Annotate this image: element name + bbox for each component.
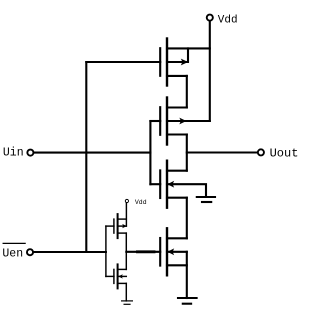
wire Uen_bar vertical to Q1 gate (85, 62, 87, 252)
Q6 drain leg (118, 268, 127, 270)
terminal Vdd (207, 15, 213, 21)
transistor Q6 mini NMOS (106, 264, 126, 288)
Q3 drain leg (167, 170, 187, 172)
Q5 body leg (118, 225, 127, 227)
mini gate rail (inverter input) (105, 226, 107, 276)
Q1 gate bar (159, 48, 161, 76)
transistor Q5 mini PMOS (106, 214, 127, 238)
svg-text:Uin: Uin (3, 146, 24, 159)
Q2 body arrow (179, 118, 186, 125)
Q6 gate wire (106, 275, 114, 277)
Q6 channel bar (117, 264, 119, 288)
wire inverter output to Q4 gate (126, 251, 160, 253)
transistor Q4 NMOS bottom (160, 228, 187, 275)
transistor Q2 PMOS (150, 98, 209, 145)
Q3 channel bar (166, 161, 168, 208)
wire Q1 gate from node Uen_bar (86, 61, 160, 63)
svg-text:Uen: Uen (2, 247, 23, 260)
svg-text:Vdd: Vdd (218, 15, 238, 27)
Q2 drain leg (167, 133, 187, 135)
transistor Q1 PMOS top (86, 39, 210, 86)
Q4 channel bar (166, 228, 168, 275)
wire Q3 gate from Uin rail (150, 183, 160, 185)
Q3 body leg to ground (167, 184, 206, 196)
Q1 source leg to Vdd rail (167, 47, 210, 49)
Q6 body leg (118, 275, 127, 277)
wire Q2 drain to Q3 drain (output node) (186, 135, 188, 171)
terminal Uout (258, 149, 264, 155)
wire Q6 source to ground G3 (125, 283, 127, 301)
Q4 source leg (167, 264, 187, 266)
Q2 gate bar (159, 107, 161, 135)
wire Q4 body/source to ground G2 (186, 252, 188, 298)
Q1 channel bar (166, 39, 168, 86)
Q2 source leg (167, 106, 187, 108)
Q1 body arrow (181, 59, 188, 66)
Q5 gate wire (106, 225, 114, 227)
Uen overline (3, 242, 25, 244)
wire Q2 gate from Uin rail (150, 120, 160, 122)
mini inverter: terminal Vdd2 (125, 199, 128, 202)
Q4 body leg (167, 251, 187, 253)
wire Q3 source to Q4 drain (186, 198, 188, 239)
Q2 body leg to Vdd rail (167, 120, 210, 122)
Q3 body arrow (167, 181, 174, 188)
wire Vdd rail (209, 21, 211, 121)
Q2 channel bar (166, 98, 168, 145)
Q5 drain leg (118, 232, 127, 234)
Q1 drain leg (167, 75, 187, 77)
Q6 gate bar (113, 269, 115, 283)
wire Uin (34, 152, 150, 154)
Q5 channel bar (117, 214, 119, 238)
wire Uout (187, 151, 257, 153)
Q1 body leg (167, 48, 188, 62)
terminal Uen (27, 249, 33, 255)
Q4 body arrow (167, 248, 174, 255)
ground G1 (Q3 bulk) (197, 197, 215, 202)
Q4 gate bar (159, 238, 161, 266)
terminal Uin (27, 150, 33, 156)
Q5 source leg (118, 218, 127, 220)
svg-text:Vdd: Vdd (135, 199, 147, 206)
wire Uin gate rail (149, 121, 151, 184)
svg-text:Uout: Uout (270, 147, 299, 161)
Q6 body arrow (118, 274, 123, 278)
Q5 gate bar (113, 219, 115, 233)
Q3 source leg (167, 197, 187, 199)
ground G3 (mini) (122, 301, 133, 304)
ground G2 (Q4 source) (178, 298, 197, 304)
wire Uen (34, 251, 106, 253)
wire inverter output node (125, 233, 127, 269)
Q6 source leg (118, 282, 127, 284)
Q5 body arrow (122, 224, 127, 228)
wire Q1 drain to Q2 source (186, 76, 188, 108)
Q4 drain leg (167, 237, 187, 239)
wire Vdd2 stem (125, 203, 127, 226)
wire overlap segment (darker) (138, 250, 155, 253)
Q3 gate bar (159, 170, 161, 198)
transistor Q3 NMOS (150, 161, 206, 208)
